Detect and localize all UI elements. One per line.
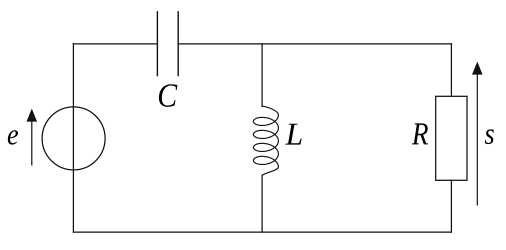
wire right branch top lead to resistor — [450, 44, 452, 96]
wire inductor branch top lead — [261, 44, 263, 107]
label R (resistor value) — [412, 123, 428, 144]
wire top rail, right segment from capacitor to right branch — [178, 43, 451, 45]
label L (inductor value) — [285, 124, 301, 145]
capacitor C plates — [157, 12, 178, 76]
arrow shaft for output voltage s — [476, 73, 478, 206]
label C (capacitor value) — [159, 84, 177, 107]
arrowhead for source voltage e — [27, 109, 38, 122]
resistor R body — [436, 96, 467, 180]
label e (source voltage) — [8, 130, 18, 144]
wire right branch bottom lead from resistor — [450, 180, 452, 232]
wire top rail, left segment to capacitor — [73, 43, 157, 45]
voltage source e circle — [42, 107, 105, 170]
label s (output voltage) — [485, 129, 494, 144]
wire left vertical branch — [72, 44, 74, 232]
arrowhead for output voltage s — [472, 62, 483, 75]
arrow shaft for source voltage e — [31, 120, 33, 166]
wire bottom rail — [73, 231, 451, 233]
wire inductor branch bottom lead — [261, 175, 263, 232]
inductor L coil (cycloid loops) — [253, 106, 278, 175]
